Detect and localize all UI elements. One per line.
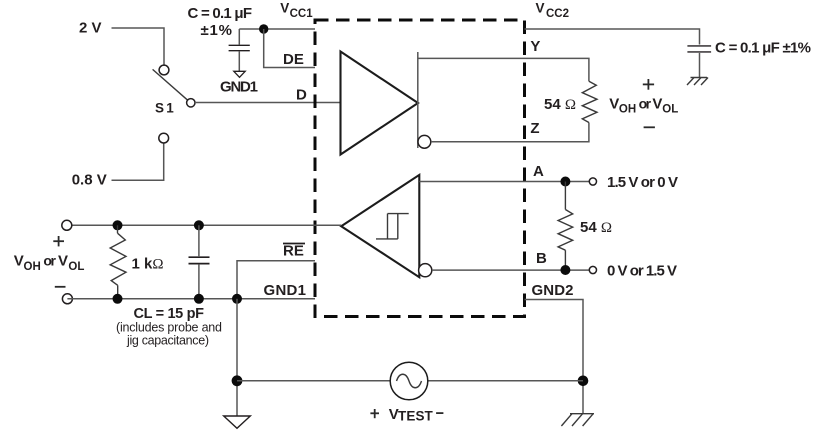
node junction GND1 bus / riser <box>232 294 242 304</box>
wire from 2V source to switch S1 top throw <box>112 28 165 65</box>
wire B from receiver bubble to test points <box>432 269 590 271</box>
terminal circle receiver output + <box>62 220 72 230</box>
svg-text:1.5 V or 0 V: 1.5 V or 0 V <box>607 174 678 191</box>
wire GND1 bus from terminal to device pin GND1 <box>67 298 315 300</box>
wire Y from driver to load <box>418 58 589 81</box>
svg-text:V: V <box>536 1 545 16</box>
terminal circle receiver output - <box>62 294 72 304</box>
svg-text:2 V: 2 V <box>79 20 102 37</box>
svg-text:0.8 V: 0.8 V <box>72 172 107 189</box>
hysteresis symbol inside receiver <box>376 214 409 239</box>
node junction bottom of 1k resistor <box>113 294 123 304</box>
node junction bottom of CL cap <box>194 294 204 304</box>
sine symbol inside VTEST <box>397 374 422 388</box>
resistor 1 kOhm <box>110 225 126 298</box>
wire GND1 riser down to test ground <box>236 299 238 416</box>
svg-text:1 kΩ: 1 kΩ <box>132 256 164 273</box>
wire VTEST left segment <box>237 380 390 382</box>
svg-text:±1%: ±1% <box>201 22 233 39</box>
switch S1 pole contact circle <box>187 99 195 107</box>
svg-text:Z: Z <box>530 120 539 137</box>
ground (chassis) at GND2 <box>561 414 594 426</box>
overbar of RE <box>283 243 305 245</box>
switch S1 bottom throw contact circle <box>159 133 169 143</box>
wire driver output stem (Y/Z vertical) <box>417 52 419 148</box>
wire Z from driver bubble to load <box>431 123 589 142</box>
svg-text:54 Ω: 54 Ω <box>544 96 576 113</box>
svg-text:C = 0.1 μF: C = 0.1 μF <box>188 5 253 22</box>
op-amp driver D (buffer triangle) <box>341 52 419 155</box>
device under test dashed box <box>315 20 525 317</box>
svg-text:(includes probe and: (includes probe and <box>116 321 222 335</box>
svg-text:GND1: GND1 <box>264 282 307 299</box>
node junction top of CL cap <box>194 220 204 230</box>
capacitor CL 15 pF <box>189 225 210 298</box>
node junction B <box>560 265 570 275</box>
wire D from switch pole to device pin D <box>195 102 341 104</box>
switch S1 lever <box>153 69 189 101</box>
svg-text:V: V <box>280 1 289 16</box>
svg-text:D: D <box>296 87 307 104</box>
label + polarity VTEST <box>370 409 379 418</box>
label - polarity (VOH/VOL right) <box>644 126 655 128</box>
label - polarity (VOH/VOL left) <box>55 286 66 288</box>
terminal circle A test point <box>589 178 596 185</box>
wire from 0.8V source to switch S1 bottom throw <box>112 143 164 180</box>
ground (signal) triangle at GND1 riser <box>224 416 251 428</box>
ground GND1 arrow symbol <box>234 71 245 77</box>
op-amp receiver R (triangle with hysteresis) <box>341 175 419 277</box>
source VTEST (AC source circle) <box>390 362 428 400</box>
node junction GND2 / VTEST wire <box>578 376 589 387</box>
resistor 54 ohm (Y-Z load) <box>582 81 597 122</box>
node junction GND1 riser / VTEST wire <box>232 375 243 386</box>
svg-text:CC2: CC2 <box>546 8 569 20</box>
wire A from device pin A to test points <box>419 181 589 183</box>
svg-text:Y: Y <box>530 38 540 55</box>
terminal circle B test point <box>589 266 596 273</box>
svg-text:DE: DE <box>283 51 304 68</box>
svg-text:GND2: GND2 <box>532 282 574 299</box>
svg-text:54 Ω: 54 Ω <box>580 219 612 236</box>
receiver inverting output bubble (B side) <box>419 264 432 277</box>
switch S1 top throw contact circle <box>159 65 169 75</box>
label + polarity (VOH/VOL left) <box>53 236 64 246</box>
svg-text:0 V or 1.5 V: 0 V or 1.5 V <box>607 263 677 280</box>
wire GND2 from device pin to ground <box>525 300 584 414</box>
svg-text:TEST: TEST <box>398 409 434 424</box>
capacitor C (0.1uF +/-1%, VCC2 bypass) <box>687 46 711 78</box>
resistor 54 ohm (A-B load) <box>558 182 573 271</box>
node junction top of 1k resistor <box>113 220 123 230</box>
capacitor C (0.1uF, VCC1 bypass) <box>229 29 250 71</box>
label + polarity (VOH/VOL right) <box>643 79 654 90</box>
svg-text:CC1: CC1 <box>290 8 314 20</box>
svg-text:S: S <box>155 101 164 116</box>
node junction VCC1 <box>259 24 268 33</box>
wire VCC2 from device pin to bypass cap <box>525 29 700 45</box>
svg-text:B: B <box>536 250 547 267</box>
wire RE from GND1 riser to device pin RE <box>237 261 315 299</box>
svg-text:jig capacitance): jig capacitance) <box>126 334 209 348</box>
wire DE from VCC1 node to device pin DE <box>264 29 315 68</box>
svg-text:GND1: GND1 <box>220 79 258 96</box>
svg-text:C = 0.1 μF ±1%: C = 0.1 μF ±1% <box>715 40 811 57</box>
svg-text:A: A <box>533 163 544 180</box>
driver inverting output bubble (Z) <box>418 135 431 148</box>
wire VTEST right segment <box>428 380 583 382</box>
node junction A <box>560 177 570 187</box>
svg-text:1: 1 <box>166 101 174 116</box>
ground (chassis) below VCC2 cap <box>687 78 708 86</box>
wire VCC1 node to device pin VCC1 <box>239 28 315 30</box>
label - polarity VTEST <box>436 412 443 414</box>
svg-text:RE: RE <box>283 243 304 260</box>
wire receiver output R to measurement network <box>67 224 341 226</box>
